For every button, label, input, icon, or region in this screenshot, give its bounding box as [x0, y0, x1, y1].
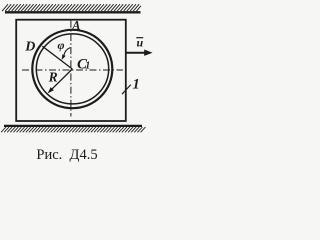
svg-text:u: u: [137, 35, 144, 49]
svg-text:φ: φ: [58, 38, 65, 52]
svg-text:A: A: [71, 18, 80, 32]
svg-text:1: 1: [85, 61, 90, 72]
svg-text:D: D: [24, 40, 35, 55]
svg-text:1: 1: [133, 76, 140, 92]
svg-text:R: R: [48, 70, 58, 85]
svg-text:Рис. Д4.5: Рис. Д4.5: [36, 147, 97, 163]
